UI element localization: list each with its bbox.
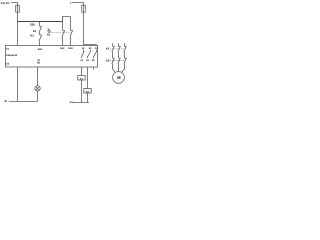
contact K2 main poles xyxy=(112,58,115,64)
svg-text:13: 13 xyxy=(82,47,85,50)
lamp P1 indicator xyxy=(35,86,40,91)
svg-text:PSR-MC40: PSR-MC40 xyxy=(6,54,18,57)
switch S1 e-stop contact channel 1 xyxy=(62,30,65,37)
wire coil K1 to 0V rail xyxy=(81,80,83,103)
relay U1 PSR-MC40 box xyxy=(6,46,98,68)
svg-text:S12: S12 xyxy=(60,47,65,50)
wire supply bus xyxy=(18,21,63,23)
wire e-stop channel 2 drop xyxy=(70,17,72,31)
svg-text:K1: K1 xyxy=(106,47,110,51)
contact K1 feedback (NC) xyxy=(39,26,42,33)
wire from 24V DC to fuse F1 xyxy=(11,3,17,6)
wire phases to motor xyxy=(113,64,125,73)
svg-text:0V: 0V xyxy=(4,100,7,103)
wire bus jog up to e-stop bridge xyxy=(63,17,71,22)
wire 0V rail right xyxy=(72,102,89,104)
internal contact 13-14 xyxy=(81,50,84,58)
wire to pin S34 xyxy=(39,41,41,45)
svg-text:23: 23 xyxy=(89,47,92,50)
contact K1 main poles xyxy=(112,46,115,52)
wire channel 2 to pin S22 xyxy=(70,37,72,46)
svg-text:34: 34 xyxy=(92,59,95,62)
wire pin 24 to coil K2 xyxy=(87,67,89,89)
coil K2 xyxy=(84,89,91,94)
wire e-stop channel 1 drop xyxy=(62,17,64,31)
fuse F1 xyxy=(16,5,20,12)
svg-text:24V DC: 24V DC xyxy=(1,2,10,5)
wire pin A2 to 0V rail xyxy=(17,67,19,102)
wire phase L3 xyxy=(124,43,126,46)
wire between feedback contacts xyxy=(39,33,41,35)
mechanical link dashed K1 xyxy=(110,48,125,50)
wire through F2 down to pin 13 xyxy=(83,5,85,45)
svg-text:M: M xyxy=(117,75,121,80)
wire bridge to pins 23 and 33 xyxy=(84,45,97,46)
svg-text:S22: S22 xyxy=(68,47,73,50)
wire pin 34 stub xyxy=(93,67,95,70)
svg-text:S35: S35 xyxy=(30,23,35,27)
wire through F1 down to bus and pin A1 xyxy=(17,5,19,45)
internal contact 33-34 xyxy=(93,50,96,58)
wire pin M1 to lamp xyxy=(37,67,39,86)
wire coil K2 to 0V rail xyxy=(87,93,89,103)
wire channel 1 to pin S12 xyxy=(62,37,64,46)
internal contact 23-24 xyxy=(87,50,90,58)
svg-text:A2: A2 xyxy=(6,63,10,66)
svg-text:14: 14 xyxy=(80,59,83,62)
fuse F2 xyxy=(82,5,86,12)
motor M1 xyxy=(113,72,125,84)
contact K2 feedback (NC) xyxy=(39,35,42,42)
svg-text:M1: M1 xyxy=(37,61,41,64)
mechanical link dashed e-stop xyxy=(51,32,71,34)
wire branch to reset/feedback chain xyxy=(39,22,41,27)
wire 0V rail left xyxy=(9,101,38,103)
wire phase L2 xyxy=(118,43,120,46)
wire from L+ to fuse F2 xyxy=(73,3,83,6)
svg-text:K1: K1 xyxy=(33,29,37,33)
wire phases between K1 and K2 xyxy=(113,52,125,58)
svg-text:0V: 0V xyxy=(70,101,73,104)
svg-text:24: 24 xyxy=(86,59,89,62)
wire phase L1 xyxy=(112,43,114,46)
svg-text:A1: A1 xyxy=(6,47,10,50)
wire pin 14 to coil K1 xyxy=(81,67,83,76)
coil K1 xyxy=(78,76,85,81)
svg-text:K2: K2 xyxy=(106,58,110,62)
wire lamp to 0V rail xyxy=(37,91,39,102)
svg-text:S34: S34 xyxy=(38,48,43,51)
svg-text:S1: S1 xyxy=(47,32,51,36)
e-stop actuator S1 xyxy=(48,30,50,32)
svg-text:K2: K2 xyxy=(30,34,34,38)
switch S1 e-stop contact channel 2 xyxy=(70,30,73,37)
mechanical link dashed K2 xyxy=(110,60,125,62)
